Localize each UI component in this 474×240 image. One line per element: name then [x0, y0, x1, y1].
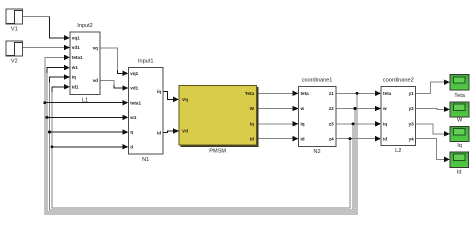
svg-text:teta1: teta1 — [130, 100, 141, 105]
svg-text:V2: V2 — [11, 59, 18, 65]
svg-text:z4: z4 — [329, 136, 334, 141]
svg-text:w1: w1 — [71, 65, 79, 70]
svg-text:w1: w1 — [129, 115, 137, 120]
svg-text:id: id — [301, 136, 305, 141]
svg-text:iq: iq — [383, 121, 387, 126]
svg-text:id: id — [157, 130, 161, 135]
svg-text:Iq: Iq — [457, 143, 462, 149]
svg-text:q: q — [130, 130, 133, 135]
svg-text:vd1: vd1 — [72, 45, 80, 50]
svg-text:vq1: vq1 — [72, 35, 80, 40]
svg-text:y3: y3 — [409, 121, 415, 126]
svg-text:coordinane1: coordinane1 — [302, 78, 333, 84]
svg-text:teta: teta — [301, 91, 310, 96]
svg-text:Vq: Vq — [182, 97, 188, 102]
svg-text:id: id — [383, 136, 387, 141]
svg-text:y1: y1 — [409, 91, 415, 96]
svg-text:L2: L2 — [395, 148, 401, 154]
svg-text:W: W — [250, 106, 255, 111]
svg-text:V1: V1 — [11, 27, 18, 33]
svg-text:d: d — [130, 144, 133, 149]
svg-text:z2: z2 — [329, 106, 334, 111]
svg-text:Teta: Teta — [454, 93, 465, 99]
svg-text:Id: Id — [457, 169, 462, 175]
svg-text:z3: z3 — [329, 121, 334, 126]
svg-text:Input2: Input2 — [77, 23, 93, 29]
svg-text:w: w — [382, 106, 387, 111]
svg-text:Teta: Teta — [245, 91, 255, 96]
svg-text:z1: z1 — [329, 91, 334, 96]
svg-text:Input1: Input1 — [138, 58, 154, 64]
svg-text:vd1: vd1 — [130, 86, 138, 91]
svg-text:L1: L1 — [82, 97, 88, 103]
svg-text:id1: id1 — [72, 84, 79, 89]
svg-text:Iq: Iq — [250, 121, 254, 126]
svg-text:coordinane2: coordinane2 — [383, 78, 414, 84]
svg-text:N1: N1 — [142, 157, 149, 163]
svg-text:Id: Id — [250, 136, 254, 141]
svg-text:iq: iq — [157, 89, 161, 94]
svg-text:iq: iq — [72, 75, 76, 80]
svg-text:vq1: vq1 — [130, 71, 138, 76]
svg-text:y2: y2 — [409, 106, 415, 111]
svg-text:iq: iq — [301, 121, 305, 126]
svg-text:teta: teta — [383, 91, 392, 96]
svg-text:y4: y4 — [409, 136, 415, 141]
svg-text:Vd: Vd — [182, 129, 188, 134]
svg-text:N2: N2 — [313, 149, 320, 155]
svg-text:w: w — [300, 106, 305, 111]
svg-text:vd: vd — [93, 78, 99, 83]
svg-text:teta1: teta1 — [72, 55, 83, 60]
svg-text:W: W — [457, 118, 463, 124]
svg-text:vq: vq — [93, 45, 99, 50]
svg-text:PMSM: PMSM — [209, 148, 226, 154]
